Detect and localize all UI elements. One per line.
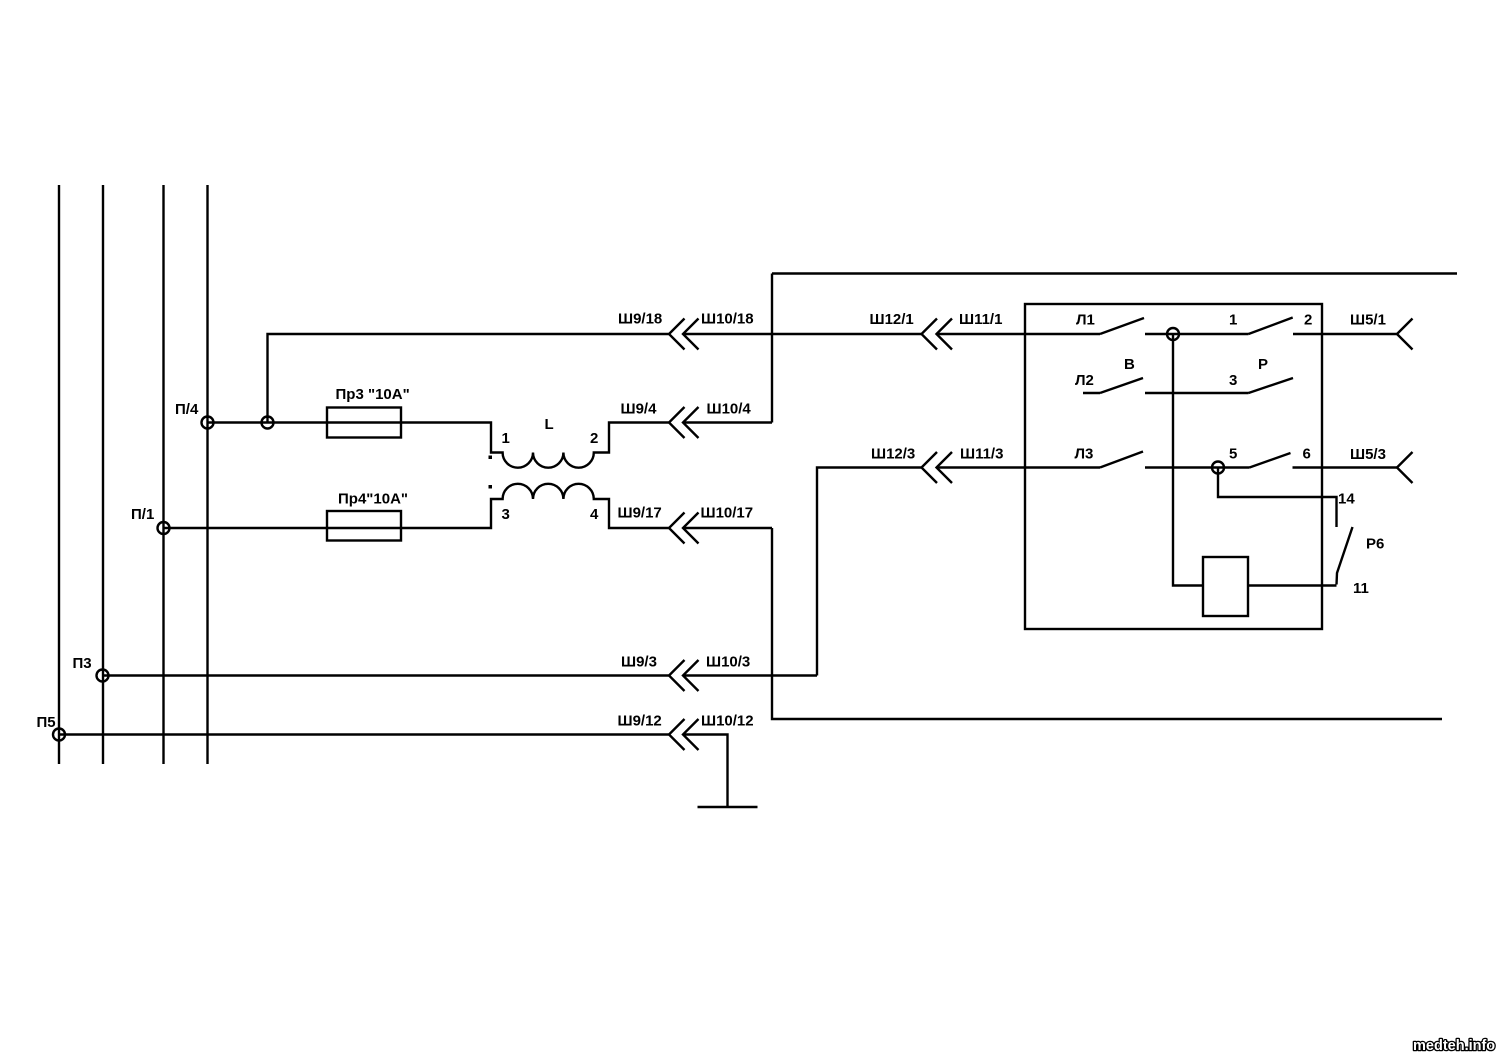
svg-text:Л3: Л3 (1075, 446, 1094, 463)
svg-text:Ш9/3: Ш9/3 (621, 654, 657, 671)
svg-text:Р6: Р6 (1366, 536, 1384, 553)
svg-text:Ш11/1: Ш11/1 (959, 311, 1002, 328)
svg-text:Ш9/17: Ш9/17 (618, 505, 662, 522)
svg-text:2: 2 (1304, 312, 1312, 329)
svg-text:Ш5/3: Ш5/3 (1350, 446, 1386, 463)
svg-text:medteh.info: medteh.info (1413, 1038, 1495, 1054)
svg-text:Пр4"10А": Пр4"10А" (338, 491, 408, 508)
svg-text:Ш11/3: Ш11/3 (960, 446, 1003, 463)
svg-text:Р: Р (1258, 356, 1268, 373)
svg-text:Ш10/4: Ш10/4 (707, 401, 752, 418)
svg-text:5: 5 (1229, 446, 1237, 463)
svg-text:Ш10/18: Ш10/18 (701, 311, 754, 328)
svg-text:11: 11 (1353, 580, 1369, 597)
svg-text:П/4: П/4 (175, 401, 199, 418)
svg-text:14: 14 (1338, 491, 1355, 508)
svg-text:П5: П5 (37, 714, 56, 731)
svg-text:3: 3 (502, 506, 510, 523)
svg-text:Л1: Л1 (1076, 312, 1095, 329)
svg-text:1: 1 (1229, 312, 1237, 329)
svg-text:Ш12/3: Ш12/3 (871, 446, 915, 463)
svg-text:Л2: Л2 (1075, 372, 1094, 389)
svg-text:1: 1 (502, 430, 510, 447)
svg-text:L: L (545, 416, 554, 433)
svg-text:2: 2 (590, 430, 598, 447)
svg-text:6: 6 (1303, 446, 1311, 463)
svg-text:Пр3 "10А": Пр3 "10А" (336, 386, 410, 403)
svg-text:Ш10/3: Ш10/3 (706, 654, 750, 671)
svg-text:Ш10/12: Ш10/12 (701, 713, 754, 730)
svg-text:Ш5/1: Ш5/1 (1350, 312, 1386, 329)
svg-text:В: В (1124, 356, 1135, 373)
svg-text:4: 4 (590, 506, 599, 523)
svg-text:3: 3 (1229, 372, 1237, 389)
svg-text:Ш9/4: Ш9/4 (621, 401, 658, 418)
svg-text:П/1: П/1 (131, 506, 154, 523)
svg-text:Ш12/1: Ш12/1 (870, 311, 914, 328)
svg-text:Ш9/12: Ш9/12 (618, 713, 662, 730)
svg-text:П3: П3 (73, 655, 92, 672)
svg-text:Ш9/18: Ш9/18 (618, 311, 662, 328)
svg-text:Ш10/17: Ш10/17 (701, 505, 754, 522)
